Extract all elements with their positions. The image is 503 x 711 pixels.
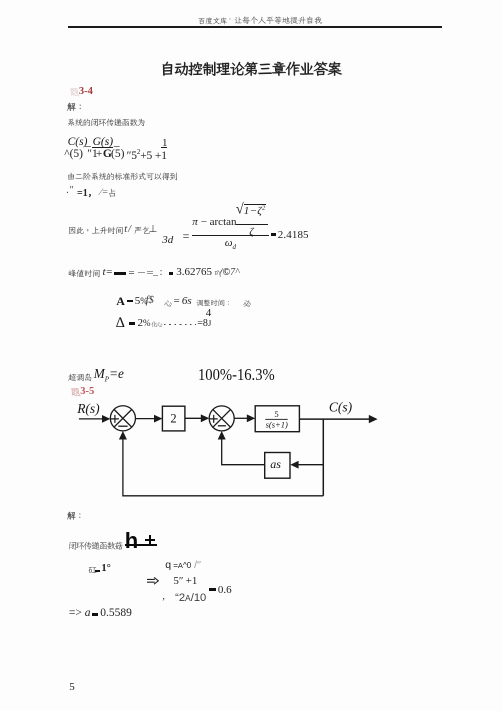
text: therefore rise time <box>68 225 125 236</box>
eq1 line2 cluster ^(5) <box>64 148 83 160</box>
arrowhead into S2 <box>201 414 209 422</box>
eq1 numerator 1 <box>162 137 168 149</box>
5% <box>135 295 148 307</box>
2% <box>138 317 151 329</box>
5 quote +1 <box>173 575 197 587</box>
eq1 line2 (5) <box>111 148 124 160</box>
= 6s <box>174 295 192 307</box>
S2 plus sign <box>210 415 218 423</box>
header dot <box>229 15 233 24</box>
text: settling time <box>196 298 234 308</box>
svg-text:R(s): R(s) <box>76 401 100 416</box>
equals <box>128 267 134 279</box>
garbled strike line <box>125 544 157 546</box>
colon <box>160 267 163 278</box>
radical sqrt(1-zeta^2) <box>236 204 266 217</box>
bold dash after gang <box>95 570 101 572</box>
title: chapter 3 homework answers <box>160 59 343 79</box>
eq1 line2 bold G <box>103 148 112 160</box>
integral-f dollar garble <box>146 295 154 306</box>
summer S2 diagonal X <box>213 410 231 428</box>
gray equals-like two bars <box>147 271 154 272</box>
bold dash 0.6 <box>209 588 215 591</box>
rise time t slash <box>124 224 131 235</box>
wire: block 2 to summer S2 <box>185 417 203 419</box>
digit 4 below <box>206 307 212 319</box>
double arrow implies <box>147 577 159 585</box>
solution marker jie: #2 <box>67 510 86 521</box>
block gain 2 <box>162 406 185 431</box>
bold em dash <box>114 272 126 274</box>
bold dash <box>129 322 136 325</box>
triangle delta 2% line <box>116 315 125 332</box>
S1 minus sign <box>118 425 127 427</box>
wire: S1 to block 2 <box>135 418 156 420</box>
A = 5% settle line: A <box>116 294 125 309</box>
=1 comma bold <box>77 186 97 199</box>
eq1 numerator bar <box>161 147 168 148</box>
value 2.4185 <box>278 229 309 241</box>
summing junction S1 circle <box>110 406 135 431</box>
block diagram SVG <box>40 395 390 510</box>
svg-text:C(s): C(s) <box>329 400 353 415</box>
=> a = 0.5589 <box>69 607 91 619</box>
gray dash one <box>138 272 145 273</box>
label 3-5 red <box>80 386 94 397</box>
peak time t= <box>103 266 113 278</box>
plant fraction bar <box>265 418 287 421</box>
header: Baidu Wenku tagline part 1 <box>198 16 229 26</box>
gray underscore <box>153 275 158 276</box>
arrowhead into as-block <box>290 461 298 469</box>
garbled /(c)7^ <box>220 267 239 278</box>
inner denominator zeta <box>249 226 253 238</box>
plant block 5/s(s+1) <box>255 406 299 432</box>
arrowhead up into S1 <box>119 431 127 440</box>
header rule <box>68 26 442 27</box>
garbled plus horizontal <box>145 539 155 541</box>
arrowhead into S1 <box>102 415 110 423</box>
garbled omega_n=1 line <box>66 185 74 196</box>
wire: plant to output C(s) <box>299 418 371 420</box>
q =A^0 garble <box>165 559 201 571</box>
fraction numerator pi - arctan <box>192 216 236 228</box>
garbled bi char <box>243 298 253 309</box>
svg-text:5: 5 <box>274 409 278 419</box>
wire: input R(s) to summer 1 <box>79 418 104 420</box>
eq1 line2 cluster "1 <box>87 148 98 160</box>
zeta garbled slash equals <box>100 187 108 198</box>
perpendicular garble <box>149 224 158 235</box>
arrowhead output <box>369 415 378 423</box>
text: system closed-loop transfer function <box>67 117 147 128</box>
wire: outer feedback bottom <box>123 437 323 496</box>
inner fraction bar <box>236 224 268 225</box>
wire: takeoff vertical <box>322 419 324 496</box>
bold dash equals <box>169 272 174 274</box>
garbled plus vertical <box>149 535 151 544</box>
text: from second-order standard form <box>67 171 179 182</box>
=8J <box>197 318 211 329</box>
1 degree <box>101 563 110 574</box>
arrowhead up into S2 <box>218 431 226 440</box>
label 3-4 red <box>79 86 93 97</box>
arrowhead into plant <box>247 414 255 422</box>
eq1 line2 tail "5^2+5+1 <box>127 148 167 162</box>
text: peak time <box>68 268 102 279</box>
garbled gang char <box>88 564 99 576</box>
summer S1 diagonal X <box>114 410 132 428</box>
equation 1 line 1: C(s) G(s) <box>68 136 88 148</box>
wire: S2 to plant block <box>234 417 249 419</box>
summing junction S2 circle <box>209 406 234 431</box>
equals <box>183 229 190 244</box>
zeta garbled zhan char <box>107 187 118 199</box>
bold dash equals <box>271 233 277 236</box>
svg-text:2: 2 <box>170 412 176 426</box>
S1 plus sign <box>111 415 119 423</box>
solution marker jie: #1 <box>67 101 86 113</box>
subscript 3d <box>162 234 173 246</box>
text: overshoot Mp <box>68 372 94 383</box>
big 100%-16.3% <box>198 365 275 385</box>
denominator omega_d <box>225 237 236 251</box>
big garbled h glyph <box>125 528 138 554</box>
garbled huaxin chars small <box>151 320 163 329</box>
dotted leaders <box>164 324 196 326</box>
header tagline part 2 <box>234 15 324 25</box>
problem label ti 3-5 (faded red char) <box>70 386 82 398</box>
eq1 G(s) underline bar <box>92 147 112 148</box>
problem label ti 3-4 (faded red char) <box>69 86 81 98</box>
comma quote 2A/10 <box>162 591 165 602</box>
main fraction bar <box>192 235 269 236</box>
as feedback block <box>265 453 290 479</box>
page number 5 <box>69 681 75 693</box>
svg-text:as: as <box>270 457 281 471</box>
garbled xin char <box>164 298 174 309</box>
value 0.6 <box>218 584 232 596</box>
value 3.62765 <box>176 266 212 278</box>
svg-text:s(s+1): s(s+1) <box>266 419 288 429</box>
text: closed-loop transfer function #2 <box>68 540 124 551</box>
eq1 trailing underscore <box>114 136 120 148</box>
S2 minus sign <box>218 425 226 427</box>
garbled unit char after 3.62765 <box>214 268 224 279</box>
bold dash <box>127 300 133 303</box>
wire: as-block to vertical riser into S2 <box>222 436 265 465</box>
eq1 line2 plus <box>96 148 103 160</box>
arrowhead into block 2 <box>154 415 162 423</box>
eq1 underscore after C(s) <box>85 136 91 148</box>
eq1 G(s) underlined bold italic <box>93 136 113 148</box>
Mp = e <box>94 366 124 384</box>
garbled yan qi chars <box>134 225 152 236</box>
wire: inner feedback to as-block <box>296 464 323 466</box>
